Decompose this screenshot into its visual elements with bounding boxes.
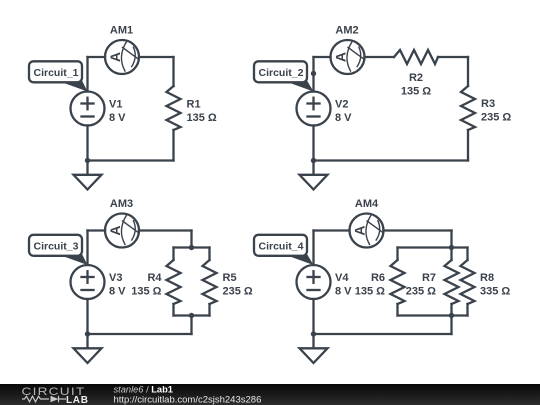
ground: [74, 348, 102, 363]
resistor R3: [461, 86, 475, 130]
wire: [86, 126, 88, 175]
wire: [312, 231, 314, 266]
svg-text:R3: R3: [481, 98, 495, 110]
svg-text:Circuit_2: Circuit_2: [259, 67, 304, 79]
svg-text:R1: R1: [187, 99, 201, 111]
resistor R5: [203, 260, 217, 304]
svg-text:V1: V1: [109, 99, 122, 111]
svg-text:Circuit_4: Circuit_4: [259, 241, 304, 253]
svg-text:Circuit_3: Circuit_3: [34, 241, 79, 253]
svg-text:AM3: AM3: [110, 198, 133, 210]
wire: [88, 56, 106, 58]
ammeter AM2: [331, 40, 365, 74]
junction: [189, 245, 194, 250]
ground: [74, 175, 102, 190]
svg-text:A: A: [107, 225, 123, 235]
ground: [300, 348, 328, 363]
ammeter AM3: [105, 214, 139, 248]
svg-text:A: A: [351, 225, 367, 235]
svg-text:8 V: 8 V: [335, 112, 352, 124]
wire: [466, 248, 468, 261]
wire: [314, 56, 331, 58]
svg-text:8 V: 8 V: [335, 286, 352, 298]
wire: [190, 231, 192, 248]
resistor R1: [167, 86, 181, 130]
resistor R4: [167, 260, 181, 304]
wire: [314, 229, 350, 231]
junction: [85, 331, 90, 336]
resistor R6: [391, 260, 405, 304]
wire: [172, 57, 174, 86]
svg-text:R7: R7: [422, 272, 436, 284]
svg-text:R4: R4: [147, 272, 162, 284]
wire: [450, 231, 452, 248]
wire: [208, 304, 210, 316]
node label Circuit_2: [254, 61, 314, 91]
svg-text:A: A: [107, 52, 123, 62]
svg-text:R6: R6: [371, 272, 385, 284]
wire: [86, 299, 88, 348]
wire: [467, 130, 469, 161]
wire: [450, 304, 452, 316]
wire: [172, 130, 174, 161]
svg-text:R2: R2: [409, 72, 423, 84]
wire: [172, 248, 174, 261]
svg-text:235 Ω: 235 Ω: [406, 286, 436, 298]
voltage source V4: [297, 265, 331, 299]
svg-text:8 V: 8 V: [109, 286, 126, 298]
svg-text:AM4: AM4: [355, 198, 379, 210]
ammeter AM1: [105, 40, 139, 74]
svg-text:135 Ω: 135 Ω: [355, 286, 385, 298]
svg-text:V4: V4: [335, 272, 349, 284]
junction: [449, 245, 454, 250]
wire: [174, 246, 210, 248]
svg-text:A: A: [332, 52, 348, 62]
svg-text:V3: V3: [109, 272, 122, 284]
wire: [312, 57, 314, 92]
svg-text:V2: V2: [335, 99, 348, 111]
wire: [450, 248, 452, 261]
wire: [88, 229, 106, 231]
resistor R8: [461, 260, 475, 304]
voltage source V1: [71, 92, 105, 126]
CircuitLab logo: [22, 385, 89, 405]
svg-text:http://circuitlab.com/c2sjsh24: http://circuitlab.com/c2sjsh243s286: [114, 395, 262, 405]
junction: [311, 158, 316, 163]
node label Circuit_1: [29, 61, 88, 91]
wire: [396, 304, 398, 316]
wire: [312, 299, 314, 348]
wire: [438, 56, 468, 58]
wire: [314, 159, 469, 161]
ground: [300, 175, 328, 190]
svg-text:135 Ω: 135 Ω: [131, 286, 161, 298]
svg-text:Circuit_1: Circuit_1: [34, 67, 79, 79]
junction: [311, 71, 316, 76]
resistor R2: [394, 50, 438, 64]
wire: [467, 57, 469, 86]
resistor R7: [445, 260, 459, 304]
svg-text:335 Ω: 335 Ω: [480, 286, 510, 298]
svg-text:AM2: AM2: [335, 25, 358, 37]
wire: [312, 126, 314, 175]
wire: [398, 314, 468, 316]
wire: [384, 229, 452, 231]
wire: [172, 304, 174, 316]
wire: [396, 248, 398, 261]
node label Circuit_4: [254, 235, 314, 265]
wire: [398, 246, 468, 248]
wire: [466, 304, 468, 316]
junction: [189, 313, 194, 318]
wire: [174, 314, 210, 316]
wire: [88, 333, 192, 335]
wire: [88, 159, 174, 161]
svg-text:235 Ω: 235 Ω: [481, 112, 511, 124]
wire: [190, 316, 192, 335]
svg-text:R8: R8: [480, 272, 494, 284]
wire: [450, 316, 452, 335]
wire: [365, 56, 395, 58]
wire: [314, 333, 452, 335]
junction: [311, 331, 316, 336]
wire: [86, 57, 88, 92]
junction: [449, 313, 454, 318]
svg-text:135 Ω: 135 Ω: [401, 86, 431, 98]
svg-text:235 Ω: 235 Ω: [223, 286, 253, 298]
svg-text:LAB: LAB: [66, 395, 89, 405]
voltage source V2: [297, 92, 331, 126]
wire: [86, 231, 88, 266]
wire: [208, 248, 210, 261]
svg-text:AM1: AM1: [110, 25, 133, 37]
node label Circuit_3: [29, 235, 88, 265]
svg-text:stanle6 / Lab1: stanle6 / Lab1: [114, 384, 173, 394]
junction: [85, 158, 90, 163]
svg-text:8 V: 8 V: [109, 112, 126, 124]
svg-text:R5: R5: [223, 272, 237, 284]
wire: [139, 229, 192, 231]
voltage source V3: [71, 265, 105, 299]
ammeter AM4: [350, 214, 384, 248]
wire: [139, 56, 174, 58]
svg-text:135 Ω: 135 Ω: [187, 112, 217, 124]
